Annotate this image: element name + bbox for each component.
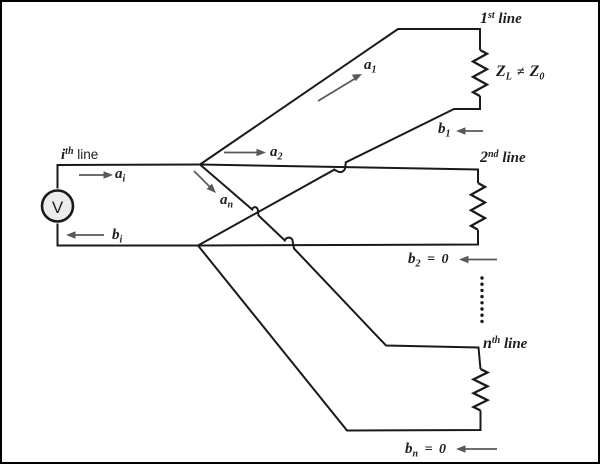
arrow b_1 [456, 127, 483, 135]
svg-text:nth line: nth line [483, 335, 528, 352]
svg-text:ith line: ith line [61, 146, 98, 163]
svg-text:2nd line: 2nd line [479, 149, 526, 166]
svg-text:ai: ai [115, 166, 126, 185]
svg-text:b2 = 0: b2 = 0 [408, 251, 450, 270]
arrow b_2 [459, 256, 497, 264]
svg-text:a2: a2 [270, 144, 283, 163]
arrow b_n [456, 445, 497, 453]
dotted separator between 2nd and n-th line [480, 276, 483, 323]
svg-text:V: V [52, 198, 64, 217]
arrow a_i [79, 171, 113, 179]
resistor R3 [474, 369, 488, 410]
wire source bottom lead [57, 224, 59, 246]
svg-text:a1: a1 [364, 57, 377, 76]
svg-text:ZL≠Z0: ZL≠Z0 [495, 63, 544, 83]
wire 2nd line bottom (R2 to node B) [198, 230, 478, 246]
arrow a_1 [318, 74, 362, 101]
wire 2nd line top (node T to R2 top) [200, 165, 478, 184]
arrow a_2 [224, 149, 266, 157]
svg-text:1st line: 1st line [480, 10, 522, 27]
arrow a_n [194, 171, 216, 193]
wire i-th line top (V to node T) [57, 164, 201, 167]
source V1 [42, 191, 73, 222]
wire n-th line top (node T diagonal with two hops to R3 top) [200, 165, 481, 370]
svg-text:bi: bi [112, 227, 123, 246]
svg-text:bn = 0: bn = 0 [405, 441, 448, 460]
wire i-th line bottom (V to node B) [57, 245, 199, 247]
arrow b_i [66, 231, 104, 239]
resistor R2 [471, 183, 485, 230]
resistor R1 (Z_L) [473, 50, 487, 96]
wire n-th line bottom (R3 to node B) [198, 246, 481, 431]
svg-text:b1: b1 [438, 121, 451, 140]
wire source top lead [57, 165, 59, 189]
wire 1st line top (node T to R1 top) [200, 29, 480, 165]
svg-text:an: an [220, 192, 234, 211]
wire 1st line bottom (R1 to node B, hop over 2nd line wire) [198, 96, 480, 246]
